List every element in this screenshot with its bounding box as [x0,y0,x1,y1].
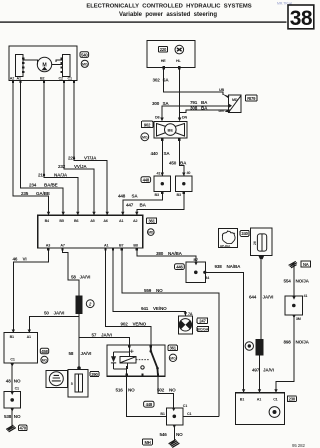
wire 450 BA pump to junction [179,138,183,176]
pin labels bottom of U1 [10,77,72,81]
svg-text:HP-JGA: HP-JGA [220,244,231,248]
label wire 938 NA/BA [215,264,242,269]
svg-text:B5: B5 [59,219,63,223]
U5 pin labels [240,397,278,401]
wire 516 NO relay to junction J4 [127,376,167,416]
wire 228 VT/JA [74,83,107,215]
svg-text:95 282: 95 282 [292,443,305,448]
label 230 box [287,396,296,402]
svg-text:HE: HE [161,59,166,63]
pin arrow J6 bottom [292,315,295,318]
svg-text:497: 497 [252,367,260,372]
svg-text:VI: VI [23,256,27,261]
unit U5 pump motor box [235,393,284,425]
svg-text:41: 41 [304,294,308,298]
pin arrow J3 top [11,392,14,395]
label wire 538 NO [4,414,21,419]
motor M1 circle [37,57,51,71]
ground G3 [289,261,297,267]
wire 234 BA/BE [21,83,64,215]
junction box J3 [4,391,20,408]
pin ticks pump bottom [161,138,181,141]
label wire 302 SA [153,78,170,83]
svg-text:C2: C2 [59,77,63,81]
svg-text:440: 440 [151,151,159,156]
label wire 58 JA/VI (upper) [71,274,90,279]
relay R2 pin ticks [125,345,159,376]
horn H1 circle [49,372,63,386]
svg-text:232: 232 [58,164,66,169]
wire HL down to pump [179,69,181,120]
reservoir tick marks [222,231,235,236]
unit U2 pressure sensor box [147,41,195,68]
svg-text:941: 941 [141,306,149,311]
wire 57 JA/VI to relay R2 [79,338,129,346]
svg-text:JA/VI: JA/VI [80,274,91,279]
label wire 48 NO [6,379,21,384]
wire 308 BA [180,110,229,113]
svg-text:447: 447 [126,203,134,208]
svg-text:A6: A6 [103,219,107,223]
label MH box [143,439,153,445]
junction box J6 [285,296,303,315]
label wire 234 BA/BE [29,183,58,188]
junction dot J4 [173,415,177,419]
svg-text:B6: B6 [74,219,78,223]
reservoir pictogram box [219,229,238,248]
connector J2 pin bumps [61,58,64,74]
svg-text:MO: MO [42,358,48,362]
svg-text:516: 516 [116,388,124,393]
wire 302 SA : HE to corner [164,69,223,95]
svg-text:58: 58 [71,274,76,279]
label circle 2 [86,300,94,308]
junction box J5 [186,262,206,283]
label wire 448 SA [118,194,138,199]
page number box 38 [288,5,314,29]
svg-text:NA/BA: NA/BA [227,264,242,269]
pump P1 left vane triangle [157,124,167,137]
svg-text:554: 554 [284,278,292,283]
label 448 box near J4 [144,401,154,407]
svg-text:A1: A1 [119,219,123,223]
svg-text:JA/VI: JA/VI [81,351,92,356]
svg-text:234: 234 [29,183,37,188]
svg-text:210: 210 [38,172,46,177]
svg-text:235: 235 [21,191,29,196]
svg-text:NO: NO [176,432,183,437]
svg-text:DN: DN [219,109,224,113]
U4 bottom pin arrow [11,363,14,366]
pin arrow S1 top [184,312,187,316]
label wire 447 BA [126,203,147,208]
svg-text:SA: SA [163,101,170,106]
svg-text:791: 791 [190,100,198,105]
svg-text:458: 458 [41,349,48,354]
svg-text:470: 470 [20,426,27,431]
connector J1 left inside U1 [16,55,24,77]
connector J2 right inside U1 [63,55,71,77]
label wire 516 NO [116,388,136,393]
svg-text:C1: C1 [183,404,187,408]
svg-text:C1: C1 [273,397,277,401]
svg-text:NO: NO [156,288,163,293]
svg-text:B7: B7 [119,244,123,248]
U4 top pin arrows [12,330,31,333]
svg-text:540: 540 [81,52,88,57]
label 446 box [175,264,185,270]
svg-text:B1: B1 [10,335,14,339]
svg-text:C1: C1 [68,77,72,81]
svg-text:450: 450 [169,161,177,166]
svg-text:26: 26 [253,241,257,245]
label MO circle U4 [41,356,48,363]
svg-text:380: 380 [156,251,164,256]
svg-text:46: 46 [13,256,18,261]
wire 58 JA/VI from ECU A7 to fuse F1 [63,250,79,296]
svg-text:A1: A1 [104,244,108,248]
svg-text:A3: A3 [46,244,50,248]
svg-text:Variable power assisted ste: Variable power assisted steering [119,12,217,18]
svg-text:40: 40 [187,171,191,175]
wire 46 VI from ECU A3 [13,250,48,332]
pin arrow R-right top [182,173,185,177]
svg-text:NO: NO [14,379,21,384]
svg-text:B7: B7 [194,258,198,262]
svg-text:290: 290 [91,372,98,377]
svg-text:DN: DN [182,116,187,120]
pump unit P1 box [154,121,187,138]
svg-text:502: 502 [157,388,165,393]
label wire 440 SA [151,151,171,156]
svg-text:BE: BE [168,127,174,132]
pump P1 circle [165,124,177,136]
label RI79 [246,95,257,101]
label circle 46 [245,342,253,350]
label wire 559 NO [144,288,163,293]
filter unit U6 box [251,228,272,256]
svg-text:VT/JA: VT/JA [84,155,97,160]
label 290 box [90,371,99,376]
svg-text:546: 546 [160,432,168,437]
wire 538 NO J3 to ground [11,408,13,426]
svg-text:NO: NO [14,414,21,419]
pin ticks pump top [160,118,181,122]
relay R2 coil [120,357,136,363]
symbol circle inside U2 [175,45,184,54]
label 902 box left of pump [141,121,153,127]
svg-text:ELECTRONICALLY CONTROLLED HY: ELECTRONICALLY CONTROLLED HYDRAULIC SYST… [86,4,251,10]
junction R bottom pin ticks [161,191,185,193]
svg-text:A2: A2 [10,77,14,81]
wire 210 NA/JA [44,83,78,215]
pin labels pump top [155,116,187,120]
wire 502 NO relay to junction J4 [158,376,174,408]
svg-text:JA/VI: JA/VI [263,294,274,299]
wire 554 NO/JA ground to J6 [293,267,295,296]
relay RI79 box [229,95,242,113]
label wire 300 SA [152,101,169,106]
svg-text:559: 559 [144,288,152,293]
wire 440 SA pump to junction [161,138,163,176]
wire 546 NO J4 to ground G4 [173,425,175,441]
ECU top pin arrows [47,212,139,216]
pin arrow J6 top [292,296,295,299]
svg-text:B1: B1 [240,397,244,401]
relay R2 box [107,345,165,376]
svg-text:B3: B3 [177,193,181,197]
svg-text:538: 538 [4,414,12,419]
junction dot R-left [161,182,164,185]
connector J1 pin bumps [22,58,25,74]
label wire 502 NO [157,388,176,393]
wire trunk below F1 [78,314,80,369]
pin arrow J3 bottom [11,408,14,411]
svg-text:41: 41 [157,172,161,176]
relay R2 diode D1 [111,362,116,364]
label MO circle left of pump [141,133,149,141]
label NA box [301,261,311,267]
label wire 546 NO [160,432,184,437]
svg-text:38: 38 [290,7,313,30]
U4 pin labels [10,335,31,361]
assembly U1 steering motor unit box [9,46,77,81]
svg-text:JA/VI: JA/VI [101,332,112,337]
svg-text:MD: MD [232,98,238,102]
svg-text:448: 448 [143,177,150,182]
svg-text:361: 361 [148,219,155,224]
label wire 210 NA/JA [38,172,68,177]
pin arrow R-left top [161,173,164,177]
label wire 235 GA/BE [21,191,50,196]
horn unit H1 box [46,370,67,387]
junction dot R-right [182,182,185,185]
svg-text:A1: A1 [17,77,21,81]
pin labels HE HL [161,59,182,63]
fuse F3 element line [78,374,80,392]
label wire 941 VE/NO [141,306,167,311]
svg-text:RI79: RI79 [247,96,256,101]
svg-text:D8: D8 [155,116,159,120]
svg-text:NA: NA [303,262,309,267]
pin arrow J4 bottom [173,425,176,428]
label wire 450 BA [169,161,187,166]
junction dot J5 [194,271,198,275]
junction box R-left [154,176,171,191]
wire 941 VE/NO from ECU to switch S1 [113,250,185,315]
wire 380 NA/BA ECU B8 to junction J5 [137,250,196,262]
svg-text:230: 230 [289,397,296,402]
svg-text:446: 446 [176,264,183,269]
svg-text:NO: NO [169,388,176,393]
svg-text:58: 58 [69,351,74,356]
ECU U3 control unit box [38,215,143,248]
pin ticks U2 [162,66,180,69]
svg-text:UB: UB [219,88,224,92]
svg-text:A1: A1 [257,397,261,401]
svg-text:VE/NO: VE/NO [153,306,167,311]
svg-text:NA/JA: NA/JA [54,172,68,177]
label MO circle U1 [81,60,88,67]
svg-text:5: 5 [71,382,73,386]
wire 644 JA/VI U6 to fuse F2 [260,259,262,339]
pin arrow J5 top [194,262,197,265]
svg-text:MO: MO [142,135,148,139]
label 361 box right of R2 [168,345,177,350]
label wire 902 VE/NO [121,322,147,327]
junction box R-right [176,176,193,191]
svg-text:BC/GA: BC/GA [197,328,208,332]
label wire 497 JA/VI [252,367,274,372]
svg-text:MD: MD [148,231,154,235]
svg-text:938: 938 [215,264,223,269]
svg-text:A7: A7 [60,244,64,248]
wire 447 BA [137,191,184,215]
svg-text:B3: B3 [155,193,159,197]
relay R2 switch blade [151,345,158,376]
fuse F3 cartridge [75,374,83,392]
wire 902 VE/NO from ECU A1 to relay R2 [106,250,151,345]
wire 300 SA / 791 BA to relay [162,106,229,120]
svg-text:48: 48 [6,379,11,384]
label wire 228 VT/JA [68,155,97,160]
svg-text:BA/BE: BA/BE [44,183,58,188]
pin ticks relay RI79 [222,94,232,113]
svg-text:B8: B8 [133,244,137,248]
wire 497 JA/VI F2 to unit U5 [259,355,261,393]
ECU bottom pin labels [46,244,138,248]
wire 448 SA [123,191,163,215]
svg-text:JA/VI: JA/VI [54,311,65,316]
wire J4 right to 559 [183,416,219,418]
ground G4 [169,440,180,448]
label wire 232 VV/JA [58,164,87,169]
filter U6 element line [261,234,263,251]
junction dot J3 [10,398,14,402]
svg-text:3M: 3M [296,317,301,321]
svg-text:C1: C1 [10,357,14,361]
ECU bottom pin ticks [47,248,138,250]
svg-text:BA: BA [180,161,187,166]
svg-text:B1: B1 [160,412,164,416]
relay R2 coil diagonal [120,357,136,363]
svg-text:247: 247 [199,318,206,323]
pump P1 right vane triangle [175,124,185,137]
label wire 308 BA [190,105,208,110]
svg-text:M: M [42,63,46,69]
svg-text:B2: B2 [40,77,44,81]
pin tick U6 bottom [258,256,264,260]
fuse F1 bar [76,296,82,314]
reservoir blob [222,231,235,243]
label 470 box [19,425,27,430]
label wire 644 JA/VI [249,294,273,299]
svg-text:228: 228 [68,155,76,160]
wire 898 NO/JA J6 to unit U5 [276,315,294,393]
svg-text:300: 300 [152,101,160,106]
header rule [0,21,287,22]
label 458 box [40,348,48,354]
svg-text:50: 50 [44,311,49,316]
label 220 inside U2 [159,47,168,53]
motor M1 rotor wedge [42,67,48,70]
label BC/GA box [197,326,208,331]
ECU top pin labels [45,219,138,223]
U5 symbol circle [269,407,280,418]
svg-text:448: 448 [118,194,126,199]
label wire 46 VI [13,256,27,261]
wire 235 GA/BE [13,83,49,215]
svg-text:902: 902 [121,322,129,327]
svg-text:NA/BA: NA/BA [168,251,183,256]
svg-text:NO/JA: NO/JA [296,340,310,345]
svg-text:308: 308 [190,105,198,110]
svg-text:C1: C1 [187,412,191,416]
unit U4 bottom-left box [4,333,38,364]
svg-text:361: 361 [170,346,177,351]
svg-text:A5: A5 [90,219,94,223]
svg-text:VE/NO: VE/NO [133,322,147,327]
svg-text:902: 902 [144,122,151,127]
svg-text:C1: C1 [15,387,19,391]
switch S1 quadrant symbol [179,319,191,331]
label 448 box [141,177,151,183]
label wire 380 NA/BA [156,251,183,256]
label wire 898 NO/JA [284,340,310,345]
relay R2 plus sign [130,350,134,354]
relay R2 dashed actuator line [136,359,149,361]
label MD circle right of ECU [148,229,155,236]
svg-text:BA: BA [201,100,208,105]
junction dot J5 right edge [203,271,206,274]
svg-text:302: 302 [153,78,161,83]
label MO circle right of R2 [169,354,176,361]
svg-text:VV/JA: VV/JA [74,164,87,169]
label wire 554 NO/JA [284,278,310,283]
svg-text:MO: MO [170,356,176,360]
relay R2 link to pins [114,345,130,376]
filter U6 capsule [257,234,266,251]
svg-text:240: 240 [241,231,248,236]
svg-text:BA: BA [201,105,208,110]
wire 50 JA/VI to U4 [29,316,79,332]
junction dot J6 [292,304,296,308]
label 240 box [240,231,249,237]
label 361 box right of ECU [147,218,157,224]
svg-text:SA: SA [132,194,139,199]
svg-text:A2: A2 [133,219,137,223]
label wire 58 JA/VI (lower) [69,351,92,356]
pin ticks U1 bottom [12,81,75,84]
label wire 791 BA [190,100,208,105]
svg-text:644: 644 [249,294,257,299]
horn H1 symbol [52,375,61,381]
wire 48 NO U4 to junction J3 [11,363,13,391]
svg-text:SA: SA [164,151,171,156]
pressure switch S1 box [178,316,192,334]
label wire 50 JA/VI [44,311,64,316]
U5 top pin arrows [242,389,278,393]
svg-text:MH: MH [144,440,150,445]
fuse unit F3 box [68,370,88,397]
svg-text:NO: NO [128,388,135,393]
pin arrow J4 top [172,408,175,411]
svg-text:NO/JA: NO/JA [296,278,310,283]
svg-text:57: 57 [92,332,97,337]
svg-text:7A: 7A [188,312,193,316]
relay R2 small circle pin [141,366,144,369]
svg-text:220: 220 [160,47,167,52]
